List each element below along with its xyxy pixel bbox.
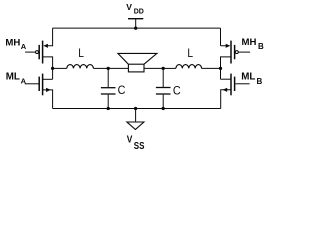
transistor MH_A (PMOS)	[25, 28, 52, 79]
junction cap A bottom	[107, 107, 110, 110]
wire node-left to inductor A	[53, 67, 67, 69]
speaker driver box	[128, 64, 144, 72]
capacitor C (A)	[101, 68, 116, 108]
svg-text:A: A	[21, 76, 27, 85]
wire node B to inductor B	[163, 67, 176, 69]
inductor L (B)	[176, 65, 202, 69]
transistor MH_B (PMOS)	[221, 28, 251, 79]
transistor ML_B (NMOS)	[221, 74, 250, 109]
svg-text:MH: MH	[242, 37, 257, 48]
speaker horn	[118, 53, 157, 64]
label L (A)	[78, 47, 84, 60]
svg-text:ML: ML	[6, 72, 20, 83]
svg-text:C: C	[173, 85, 181, 98]
label L (B)	[187, 47, 193, 60]
label VSS	[127, 134, 145, 151]
label C (A)	[118, 85, 126, 98]
junction node left (drains MH_A/ML_A)	[51, 67, 54, 70]
svg-text:L: L	[187, 47, 193, 60]
wire inductor A to node A	[93, 67, 108, 69]
svg-text:MH: MH	[5, 37, 20, 48]
transistor ML_A (NMOS)	[25, 74, 53, 109]
power VDD bar	[128, 18, 143, 20]
ground VSS triangle	[127, 122, 144, 130]
svg-text:B: B	[257, 77, 263, 86]
svg-text:L: L	[78, 47, 84, 60]
junction VSS-rail	[134, 107, 137, 110]
junction cap B bottom	[162, 107, 165, 110]
wire node A to node B	[108, 67, 163, 69]
inductor L (A)	[67, 65, 94, 69]
svg-text:V: V	[126, 2, 132, 12]
capacitor C (B)	[156, 68, 171, 108]
wire VDD stub	[135, 19, 137, 28]
svg-text:SS: SS	[134, 140, 145, 151]
label C (B)	[173, 85, 181, 98]
junction node A	[107, 67, 110, 70]
wire VSS stub	[135, 109, 137, 123]
svg-text:B: B	[258, 42, 264, 51]
junction node right (drains MH_B/ML_B)	[219, 67, 222, 70]
svg-text:DD: DD	[134, 9, 144, 16]
junction node B	[162, 67, 165, 70]
svg-text:A: A	[21, 42, 27, 51]
svg-text:V: V	[127, 134, 133, 146]
wire bottom rail VSS	[53, 108, 221, 110]
wire top rail VDD	[53, 27, 221, 29]
svg-text:ML: ML	[241, 72, 255, 83]
svg-text:C: C	[118, 85, 126, 98]
wire inductor B to node right	[202, 67, 221, 69]
junction VDD-rail	[134, 27, 137, 30]
